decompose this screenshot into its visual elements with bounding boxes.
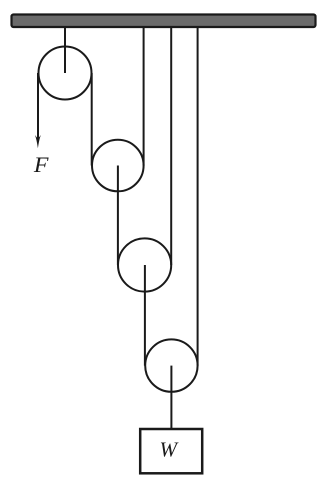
rope segment: P1 right side down to under P2: [91, 73, 93, 166]
svg-text:W: W: [160, 438, 180, 462]
pulley P1: [39, 47, 92, 100]
ceiling bar: [12, 15, 316, 28]
pulley P2: [92, 140, 144, 192]
rope segment: P2 right side up to ceiling: [143, 28, 145, 166]
rope segment: F side down from P1: [37, 73, 39, 141]
hanger wire to pulley P1: [64, 27, 66, 73]
force arrowhead F: [35, 135, 41, 148]
rope segment: P3 right side up to ceiling: [170, 28, 172, 265]
weight box: [140, 429, 202, 473]
rope segment: P4 axle down to weight: [170, 366, 172, 428]
pulley P3: [118, 238, 171, 291]
rope segment: P4 right side up to ceiling: [197, 28, 199, 366]
pulley P4: [145, 339, 197, 391]
rope segment: P2 axle down to under P3: [117, 166, 119, 266]
rope segment: P3 axle down to under P4: [144, 265, 146, 366]
svg-text:F: F: [33, 153, 49, 178]
